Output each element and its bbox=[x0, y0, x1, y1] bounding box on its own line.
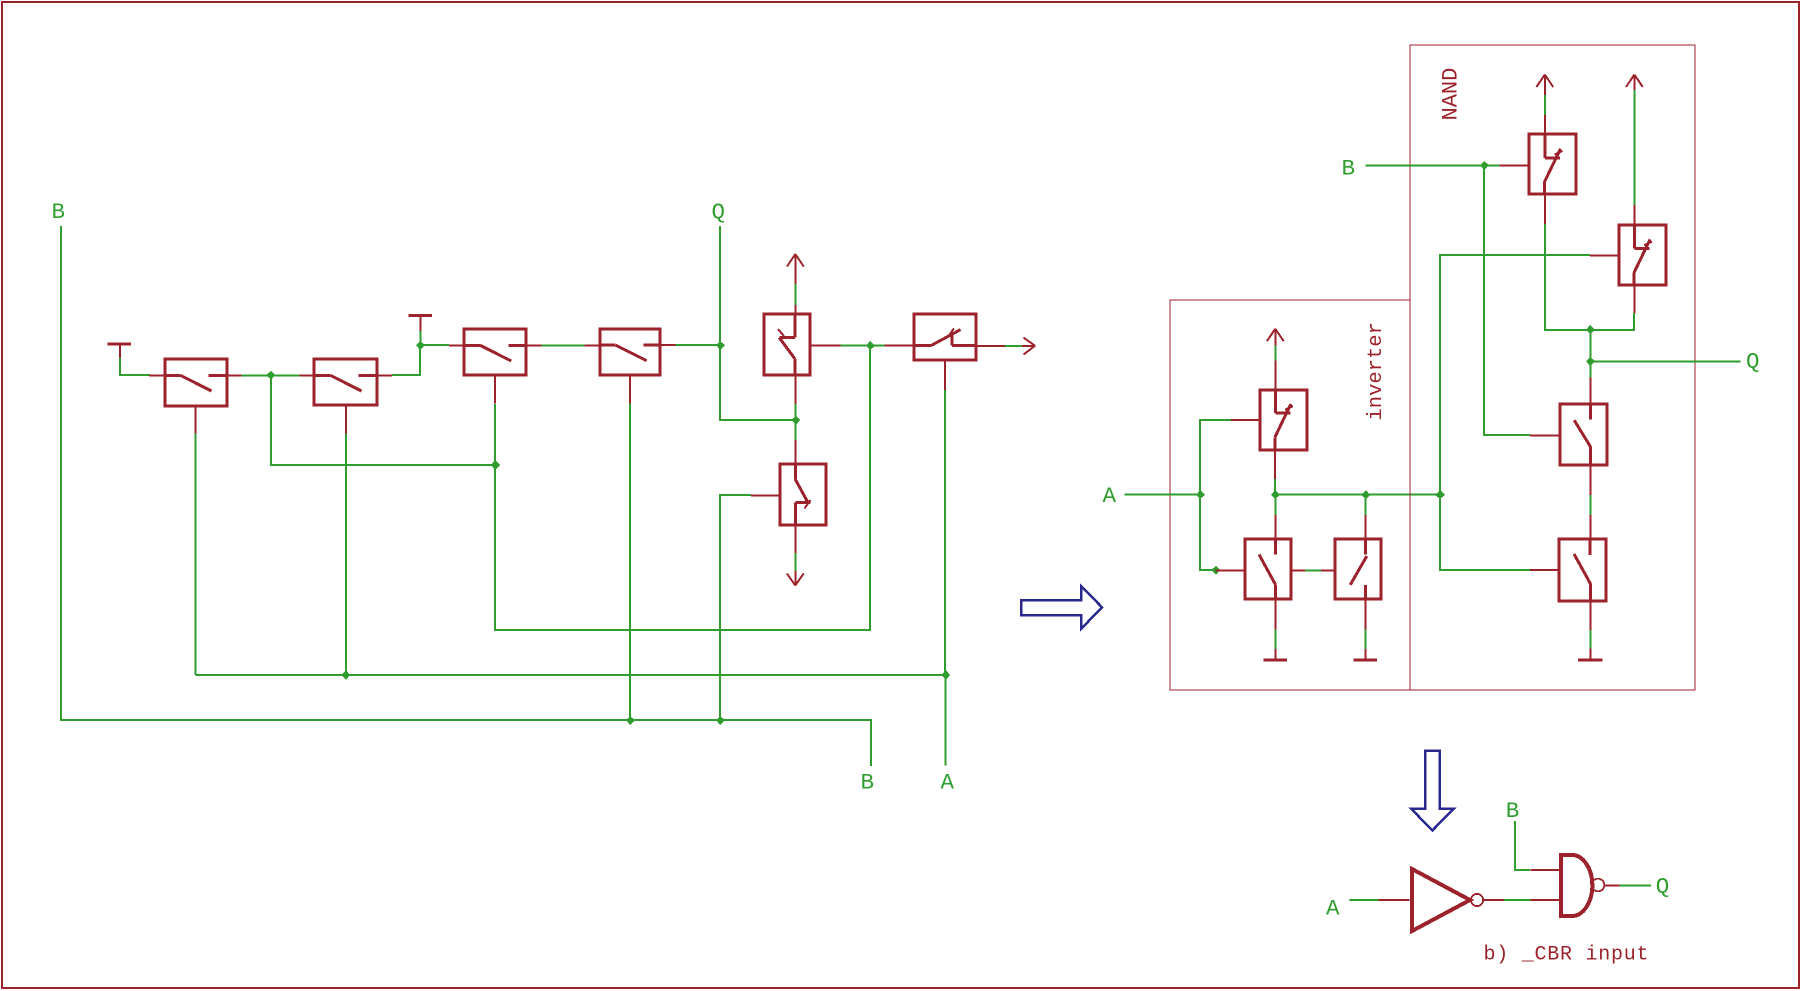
pin M11 source bbox=[1544, 115, 1546, 135]
svg-text:inverter: inverter bbox=[1365, 322, 1388, 420]
nand bubble U2 bbox=[1592, 879, 1605, 892]
wire A to M9 gate bbox=[1200, 495, 1216, 570]
wire M11 to out bbox=[1545, 224, 1590, 330]
wire output bbox=[1005, 345, 1022, 347]
wire to gnd arrow bbox=[794, 553, 796, 571]
vcc arrow M11 bbox=[1536, 75, 1553, 95]
pin M10 top bbox=[1365, 515, 1367, 539]
transistor M6 bbox=[914, 314, 976, 360]
junction inv out2 bbox=[1361, 490, 1370, 499]
svg-text:Q: Q bbox=[1656, 874, 1670, 900]
vcc arrow M12 bbox=[1626, 75, 1643, 90]
junction nand out1 bbox=[1586, 325, 1595, 334]
pin M9 bottom bbox=[1274, 600, 1276, 630]
pin M2 right bbox=[377, 374, 392, 376]
pin M11 gate bbox=[1500, 164, 1530, 166]
wire M3 gate feedback loop bbox=[495, 346, 870, 630]
svg-text:B: B bbox=[52, 199, 66, 225]
svg-text:A: A bbox=[941, 770, 955, 796]
junction out node bbox=[866, 341, 875, 350]
gnd arrow bbox=[787, 571, 804, 586]
pin M1 gate bbox=[194, 406, 196, 434]
pin M7 drain bbox=[794, 525, 796, 553]
pin M9 gate bbox=[1216, 570, 1245, 572]
svg-text:b) _CBR input: b) _CBR input bbox=[1484, 944, 1650, 967]
wire vcc to M11 bbox=[1544, 95, 1546, 115]
pin M12 gate bbox=[1590, 254, 1618, 256]
wire B input bbox=[1365, 164, 1499, 166]
wire net A horizontal bbox=[195, 674, 945, 676]
wire M1 gate down bbox=[194, 434, 196, 676]
wire M7 gate down bbox=[720, 495, 751, 720]
wire M3-M4 bbox=[541, 344, 584, 346]
pin M7 gate bbox=[751, 494, 780, 496]
svg-text:Q: Q bbox=[1746, 349, 1760, 375]
wire M5-M6 bbox=[841, 345, 885, 347]
junction net A / M2 gate bbox=[341, 670, 350, 680]
junction Q node bbox=[716, 341, 725, 350]
inverter gate U1 bbox=[1412, 869, 1470, 931]
wire node1 feedback bbox=[271, 375, 495, 465]
junction A node bbox=[1196, 490, 1205, 499]
junction nand out2 bbox=[1586, 357, 1595, 366]
transistor M14 NMOS bbox=[1559, 539, 1606, 601]
wire M12 gate to inverter out bbox=[1440, 255, 1590, 495]
wire vcc to M8 bbox=[1274, 345, 1276, 360]
wire M8 to out node bbox=[1274, 479, 1276, 495]
pin M12 source bbox=[1633, 205, 1635, 226]
vcc arrow M8 bbox=[1267, 329, 1284, 346]
transistor M5 pull-up bbox=[764, 314, 810, 375]
pin M6 gate bbox=[944, 360, 946, 390]
pin M8 gate bbox=[1231, 419, 1260, 421]
transistor M4 bbox=[600, 329, 661, 375]
wire M14 to gnd bbox=[1589, 630, 1591, 649]
svg-text:A: A bbox=[1103, 483, 1117, 509]
wire M5-M7 bbox=[794, 404, 796, 440]
junction net B / M4 gate bbox=[626, 716, 635, 725]
pin M2 left bbox=[300, 374, 315, 376]
pin M8 source bbox=[1274, 361, 1276, 390]
wire Q down to drain node bbox=[720, 226, 796, 420]
pin M1 left bbox=[149, 374, 165, 376]
wire vcc to M12 bbox=[1633, 90, 1635, 205]
wire out down bbox=[1590, 330, 1592, 362]
wire T1 to M1 bbox=[120, 358, 150, 375]
pin M9 top bbox=[1274, 515, 1276, 539]
transistor M11 PMOS bbox=[1529, 134, 1576, 195]
pin M4 gate bbox=[629, 375, 631, 403]
pin M12 drain bbox=[1633, 286, 1635, 314]
transistor M2 bbox=[314, 359, 377, 405]
nand gate U2 bbox=[1561, 855, 1592, 916]
wire A to M8 gate bbox=[1200, 420, 1231, 495]
wire inverter output bbox=[1275, 494, 1440, 496]
transistor M12 PMOS bbox=[1619, 225, 1666, 286]
junction drain node bbox=[791, 416, 800, 425]
junction inv out3 bbox=[1435, 490, 1445, 499]
junction B node bbox=[1480, 161, 1489, 170]
transistor M9 NMOS bbox=[1245, 539, 1291, 600]
pin M10 bottom bbox=[1364, 600, 1366, 630]
junction net B / M7 gate bbox=[716, 716, 725, 725]
wire M10 to gnd bbox=[1364, 630, 1366, 650]
ground M14 bbox=[1578, 649, 1603, 660]
wire B down to M13 gate bbox=[1484, 165, 1530, 435]
ground M10 bbox=[1353, 649, 1377, 660]
pin M3 left bbox=[449, 344, 464, 346]
transistor M7 bbox=[780, 464, 826, 525]
pin M6 left bbox=[885, 345, 915, 347]
wire M1-M2 bbox=[242, 374, 300, 376]
pin M1 right bbox=[226, 374, 241, 376]
pin M14 bottom bbox=[1589, 601, 1591, 630]
wire out to M9 top bbox=[1274, 495, 1276, 515]
pin M3 right bbox=[526, 344, 541, 346]
wire out to M13 top bbox=[1590, 361, 1592, 377]
junction net A / M6 gate bbox=[941, 670, 950, 680]
pin U1 input bbox=[1379, 899, 1410, 901]
wire M9 to gnd bbox=[1274, 630, 1276, 650]
wire net B bbox=[61, 226, 871, 766]
svg-text:B: B bbox=[1506, 798, 1520, 824]
link M9-M10 bbox=[1291, 570, 1305, 572]
wire U2 output bbox=[1604, 884, 1620, 886]
wire M2 gate down bbox=[345, 434, 347, 676]
wire M4 gate down bbox=[629, 404, 631, 721]
wire M4 to Q node bbox=[676, 344, 721, 346]
inverter block outline bbox=[1170, 300, 1410, 690]
transistor M10 NMOS bbox=[1335, 539, 1381, 600]
NAND block outline bbox=[1410, 45, 1695, 690]
pin M2 gate bbox=[345, 405, 347, 433]
vcc arrow M5 bbox=[787, 254, 804, 284]
wire M2 to T2 node bbox=[392, 345, 449, 375]
wire M6 gate down bbox=[944, 390, 946, 675]
wire Q output bbox=[1591, 360, 1741, 362]
junction M9 gate bbox=[1211, 566, 1220, 575]
supply stub T1 bbox=[108, 344, 132, 360]
inverter bubble U1 bbox=[1471, 894, 1483, 906]
pin M4 left bbox=[585, 344, 600, 346]
svg-text:B: B bbox=[861, 770, 875, 796]
wire B gates bbox=[1515, 821, 1530, 870]
pin M5 right bbox=[811, 345, 841, 347]
svg-text:A: A bbox=[1326, 896, 1340, 922]
svg-text:Q: Q bbox=[712, 199, 726, 225]
output arrow bbox=[1022, 338, 1035, 355]
pin M5 drain bbox=[794, 375, 796, 404]
junction node1 bbox=[266, 371, 275, 380]
transistor M13 NMOS bbox=[1560, 404, 1607, 466]
svg-text:B: B bbox=[1342, 155, 1356, 181]
pin M14 gate bbox=[1530, 569, 1559, 571]
pin M11 drain bbox=[1544, 195, 1546, 225]
pin M5 source bbox=[794, 305, 796, 315]
pin M13 top bbox=[1590, 378, 1592, 405]
wire A gates bbox=[1350, 899, 1379, 901]
svg-text:NAND: NAND bbox=[1439, 68, 1464, 121]
wire T2 down bbox=[420, 331, 422, 346]
transistor M8 PMOS bbox=[1260, 390, 1307, 451]
pin U2 input B bbox=[1530, 869, 1560, 871]
pin M3 gate bbox=[494, 375, 496, 403]
wire out to M10 top bbox=[1365, 495, 1367, 515]
pin M8 drain bbox=[1274, 450, 1276, 480]
junction feedback bbox=[491, 460, 500, 470]
pin M4 right bbox=[660, 344, 675, 346]
pin M7 source bbox=[794, 440, 796, 464]
wire net A down bbox=[945, 675, 947, 766]
block arrow right bbox=[1021, 586, 1102, 629]
supply stub T2 bbox=[409, 316, 433, 332]
wire M12 to out bbox=[1590, 313, 1634, 330]
block arrow down bbox=[1411, 751, 1454, 831]
wire vcc to M5 bbox=[794, 284, 796, 305]
link M13-M14 bbox=[1589, 466, 1591, 495]
transistor M1 bbox=[165, 359, 227, 406]
ground M9 bbox=[1264, 649, 1288, 660]
junction T2 node bbox=[416, 341, 425, 350]
pin M13 gate bbox=[1530, 434, 1559, 436]
wire inv out to M14 gate bbox=[1440, 495, 1530, 570]
junction inv out1 bbox=[1271, 490, 1280, 499]
wire A input bbox=[1125, 494, 1201, 496]
pin M6 right output bbox=[976, 345, 1005, 347]
transistor M3 bbox=[464, 329, 526, 375]
wire U1 out to U2 bbox=[1483, 899, 1504, 901]
